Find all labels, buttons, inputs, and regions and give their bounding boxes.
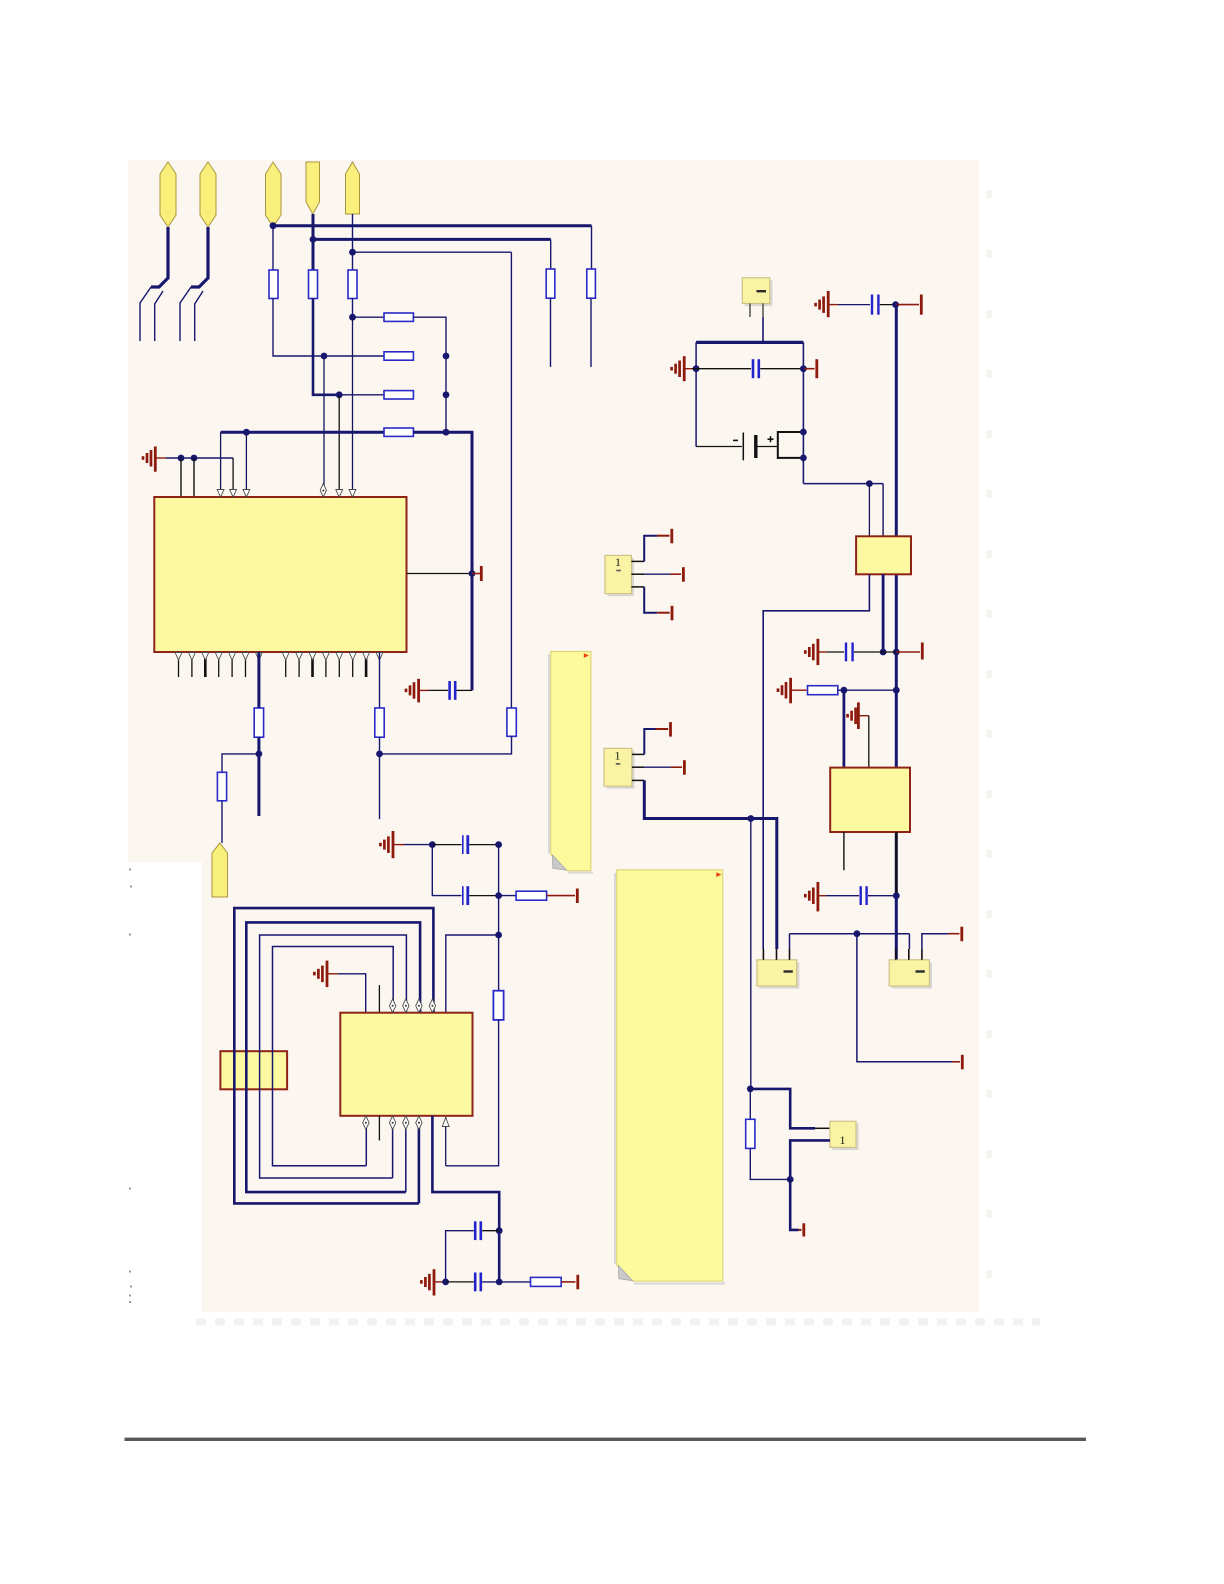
jumper JB [889, 960, 929, 986]
ground GND7 [816, 291, 838, 317]
JA pin stubs [763, 949, 789, 960]
connector flag P3 [266, 162, 282, 227]
node cap8 b [893, 649, 900, 656]
wire loop3 [260, 935, 407, 1178]
wire cap5 row [482, 1230, 499, 1232]
pin diamonds U2 bottom [363, 1116, 422, 1130]
resistor R11 [254, 708, 263, 737]
ground GND5 [421, 1269, 443, 1295]
wire reg pin1 [868, 484, 870, 537]
wire JD pin1 [644, 536, 657, 562]
wire battery minus feed [696, 446, 742, 448]
wire R11 down [257, 737, 260, 816]
terminal T9 [657, 529, 672, 544]
wire tap long drop [750, 819, 752, 1089]
node cap8 a [880, 649, 887, 656]
node row3 right [443, 391, 450, 398]
wire U2 out thick [432, 1116, 499, 1282]
pin arrows U1 bottom [175, 653, 383, 661]
header JC [830, 1121, 856, 1147]
wire tap down to T [857, 934, 952, 1062]
wire node to C2 [432, 844, 461, 846]
node net1 [270, 222, 277, 229]
node gnd rail b [191, 455, 198, 462]
wire row4 thick left [221, 431, 384, 434]
note N1 fold [552, 855, 566, 870]
wire R13 down free [379, 737, 381, 819]
wire row4 thick right [413, 432, 472, 690]
wire net1 drop to R4 [591, 226, 593, 269]
resistor R2 [309, 270, 318, 299]
pin dot U1 arrow [322, 490, 324, 492]
wire cap6 row right [482, 1281, 530, 1283]
node net3 [349, 249, 356, 256]
JE pin stubs [632, 754, 644, 780]
terminal T14 [799, 1223, 804, 1236]
jumper J1 shadow [745, 280, 772, 305]
ground GND11 [805, 882, 826, 911]
battery BT1 [733, 433, 774, 461]
wire JE pin1 [644, 729, 655, 754]
transformer TR1 [220, 1051, 287, 1089]
header JE shadow [607, 751, 634, 788]
wire C8 to nodes [854, 651, 896, 653]
terminal T2 [547, 889, 578, 904]
terminal T12 [656, 722, 671, 737]
wire tap row2 to U1 [323, 356, 325, 490]
header JD shadow [607, 558, 633, 595]
wire R18 top [749, 1089, 751, 1119]
wire JD pin3 [644, 587, 657, 613]
wire C6 to node [760, 368, 803, 370]
terminal T8 [949, 927, 962, 942]
wire loop2 [246, 922, 420, 1192]
JD pin stubs [631, 561, 644, 587]
terminal T10 [670, 567, 683, 582]
wire GND7 to C7 [838, 304, 870, 306]
U1 right pin wire [407, 573, 473, 575]
wire reg feed horizontal [803, 483, 883, 485]
wire U2 top stub [378, 985, 380, 1013]
wire U2 bottom stub [378, 1116, 380, 1141]
node battery top [800, 429, 807, 436]
ghost text row [196, 1319, 1040, 1326]
ground GND3 [380, 831, 404, 858]
terminal T3 [561, 1275, 578, 1290]
wire R2 to row3 left [313, 298, 339, 395]
JD dash [616, 570, 621, 572]
resistor R10 [507, 708, 516, 736]
node R18 join [787, 1176, 794, 1183]
capacitor C1 [450, 681, 456, 700]
wire row1 left [353, 316, 385, 318]
ground GND9 [778, 678, 807, 704]
header JC shadow [832, 1124, 857, 1149]
wire P5 to R3 [352, 252, 354, 270]
connector flag P6 [212, 843, 228, 897]
note panel N2 [617, 870, 723, 1281]
wire bus net1 [273, 224, 592, 227]
resistor R15 [493, 991, 503, 1020]
note N2 fold [618, 1265, 632, 1280]
node battery bottom [800, 455, 807, 462]
wire loop1 [234, 908, 433, 1203]
resistor R7 [384, 352, 413, 360]
node main rail a [800, 365, 807, 372]
wire U1 pin15 drop [379, 652, 381, 708]
node row2 right [443, 353, 450, 360]
wire R1 to row2 left [273, 298, 384, 356]
footer rule [125, 1438, 1087, 1441]
JB dash [916, 970, 925, 972]
header JD [605, 555, 632, 593]
wire loop2 return up [405, 1122, 407, 1192]
resistor R6 [384, 313, 413, 321]
jumper JA [757, 960, 797, 986]
U1 bottom pin stubs [179, 652, 367, 677]
ground GND8 [805, 639, 827, 665]
wire up arrow pin [445, 1117, 447, 1166]
node cap6 left [442, 1279, 449, 1286]
wire VR2 bottom stub [843, 832, 845, 870]
capacitor C3 [463, 886, 468, 905]
capacitor C2 [463, 835, 468, 854]
node rail mid [495, 892, 502, 899]
wire cap5 left [446, 1231, 474, 1282]
terminal T11 [657, 606, 672, 621]
node rail bottom [495, 932, 502, 939]
node cap9 [893, 892, 900, 899]
jumper JA shadow [759, 962, 798, 987]
wire C9 to node [868, 895, 896, 897]
wire rail to JB pin2 [908, 934, 910, 949]
transceiver U2 [340, 1013, 472, 1116]
node row4 tap [243, 429, 250, 436]
connector flag P5 [346, 162, 360, 214]
note panel N2 shadow [615, 873, 724, 1284]
svg-text:1: 1 [615, 749, 621, 763]
jumper J1 [742, 278, 770, 304]
wire JE pin3 feed [644, 780, 777, 949]
capacitor C4 [475, 1221, 481, 1240]
note panel N1 [551, 652, 591, 871]
wire to JC pin1 [750, 1089, 815, 1128]
resistor R1 [269, 270, 278, 299]
note N1 marker [584, 653, 589, 658]
ground GND2 [406, 679, 429, 703]
wire VR2 out right [895, 832, 897, 896]
right margin ticks [986, 190, 992, 1305]
capacitor C8 [846, 643, 853, 662]
wire bus net3 [353, 214, 512, 252]
ground GND1 [143, 447, 166, 472]
terminal T7 [952, 1055, 962, 1070]
terminal T4 [803, 359, 816, 378]
node gnd rail a [178, 455, 185, 462]
regulator VR2 [830, 768, 910, 832]
connector flag P2 [200, 162, 216, 227]
wire gnd corner to U1 pin [232, 458, 234, 490]
node divider A [256, 751, 263, 758]
node divider C [747, 1086, 754, 1093]
wire GND8 to C8 [827, 651, 844, 653]
regulator VR1 [856, 536, 911, 574]
wire to R12 [222, 754, 259, 772]
wire rail to JA pin3 [789, 934, 791, 949]
wire GND6 to C6 [692, 368, 751, 370]
wire VR2 pin1 feed [843, 690, 846, 767]
wire GND10 down [868, 716, 870, 768]
wire rail to U2 feed [446, 935, 499, 1013]
resistor R9 [384, 428, 413, 436]
wire loop3 return up [392, 1122, 394, 1178]
resistor R17 [808, 686, 838, 695]
JE dash [616, 763, 621, 765]
svg-text:1: 1 [840, 1133, 846, 1147]
node row1 left [349, 314, 356, 321]
wire battery plus feed [758, 446, 778, 448]
node rail top [495, 841, 502, 848]
wire C3 to right rail [469, 895, 498, 897]
wire P1 bus entry [140, 227, 168, 341]
JC pin2 stub [815, 1139, 830, 1141]
node out cap top [496, 1227, 503, 1234]
pin diamonds U2 top [389, 999, 435, 1013]
node row2 tap [321, 353, 328, 360]
pin diamond dots U2 bottom [365, 1122, 420, 1124]
node feed tap [747, 815, 754, 822]
wire GND2 to C1 [429, 689, 448, 691]
ground GND4 [314, 961, 338, 988]
node divider B [376, 751, 383, 758]
jumper JB shadow [892, 962, 931, 987]
wire JB pin3 to T [922, 934, 949, 949]
terminal T1 [472, 566, 481, 581]
wire J1 to rail [762, 317, 764, 342]
pin arrows U1 top [217, 484, 356, 498]
note N2 marker [716, 872, 721, 877]
terminal T13 [671, 760, 684, 775]
wire loop4 [273, 947, 394, 1166]
node net2 [310, 236, 317, 243]
wire C2 to right rail [469, 844, 498, 846]
wire inter-connector rail [790, 933, 910, 935]
wire U1 pin7 drop [257, 652, 260, 708]
wire tap row3 to U1 [338, 395, 340, 490]
wire row4 corner to U1 pin [220, 432, 222, 490]
battery holder fork [778, 431, 804, 459]
terminal T6 [896, 643, 922, 660]
wire VR1 out mid [882, 574, 885, 652]
wire R15 down [446, 1020, 499, 1166]
wire loop4 return up [365, 1122, 367, 1166]
wire GND3 to node [404, 844, 432, 846]
svg-text:1: 1 [615, 555, 621, 569]
wire P4 to R2 [312, 239, 315, 270]
connector flag P4 [306, 162, 320, 214]
node reg feed [866, 480, 873, 487]
wire R17 to rail [838, 689, 897, 691]
node U1 right pin [469, 570, 476, 577]
left margin dots [129, 869, 132, 1304]
wire GND11 to C9 [826, 895, 859, 897]
resistor R4 [587, 269, 596, 298]
resistor R8 [384, 391, 413, 399]
resistor R14 [516, 891, 547, 900]
ground GND10 [848, 702, 869, 729]
JA dash [784, 970, 793, 972]
wire net2 drop to R5 [550, 239, 552, 269]
terminal T5 [896, 295, 922, 315]
node cap pair left [429, 841, 436, 848]
J1 pin stubs [750, 304, 763, 318]
wire to R14 [499, 895, 516, 897]
wire P5 column to U1 [352, 317, 354, 490]
resistor R13 [375, 708, 384, 737]
wire rail left drop [695, 342, 697, 446]
capacitor C6 [753, 359, 759, 378]
wire vin long vertical [895, 305, 898, 960]
wire C1 to row4 rail [457, 689, 472, 691]
header JE [604, 748, 632, 786]
node rail mid2 [893, 687, 900, 694]
wire bus net2 [313, 214, 551, 239]
node row3 tap [336, 391, 343, 398]
wire P3 to R1 [272, 226, 274, 270]
op-amp U1 [154, 497, 406, 652]
pin arrow U2 bottom up [442, 1118, 449, 1127]
wire right rail [498, 845, 500, 935]
capacitor C5 [475, 1273, 481, 1292]
wire C7 to node [880, 304, 896, 306]
connector flag P1 [160, 162, 176, 227]
node row4 right [443, 429, 450, 436]
wire main rail drop [802, 342, 804, 483]
wire loop1 return up [418, 1122, 421, 1203]
wire R18 bottom [750, 1148, 790, 1179]
ground GND6 [672, 356, 692, 381]
wire JC pin2 down [790, 1140, 830, 1230]
wire R5 free end [550, 298, 552, 367]
capacitor C7 [872, 295, 878, 315]
wire R3 to row1 node [352, 298, 354, 317]
wire pin b [193, 458, 195, 497]
wire pin a [180, 458, 182, 497]
wire JD pin2 [644, 573, 670, 575]
wire JE pin2 [644, 766, 671, 768]
wire cap6 row left [446, 1281, 474, 1283]
node C6 junction [693, 365, 700, 372]
wire left rail down [432, 845, 461, 896]
JB pin stubs [896, 949, 922, 960]
node cap6 right [496, 1279, 503, 1286]
note panel N1 shadow [549, 654, 592, 873]
wire supply rail thick [696, 341, 803, 344]
J1 dash [757, 290, 767, 292]
capacitor C9 [861, 886, 867, 905]
wire R12 to flag [221, 801, 223, 843]
wire P2 bus entry [180, 227, 208, 341]
wire R10 down [380, 736, 512, 754]
wire GND1 rail [166, 457, 233, 459]
wire rail to R15 [498, 935, 500, 991]
wire net3 drop to R10 [510, 252, 512, 708]
resistor R5 [546, 269, 555, 298]
wire row1 right [413, 317, 446, 432]
JC pin1 stub [815, 1127, 830, 1129]
wire row4 tap to U1 pin [245, 432, 247, 490]
node R17 out [841, 687, 848, 694]
resistor R3 [348, 270, 357, 299]
resistor R18 [746, 1119, 755, 1148]
wire GND4 to U2 [338, 974, 366, 1013]
resistor R16 [531, 1277, 562, 1286]
resistor R12 [217, 772, 226, 801]
wire VR1 out left [763, 574, 869, 949]
wire R4 free end [590, 298, 592, 367]
wire reg pin2 [882, 484, 884, 537]
node vin top [892, 301, 899, 308]
pin diamond dots U2 top [392, 1005, 434, 1007]
node rail tap [854, 930, 861, 937]
